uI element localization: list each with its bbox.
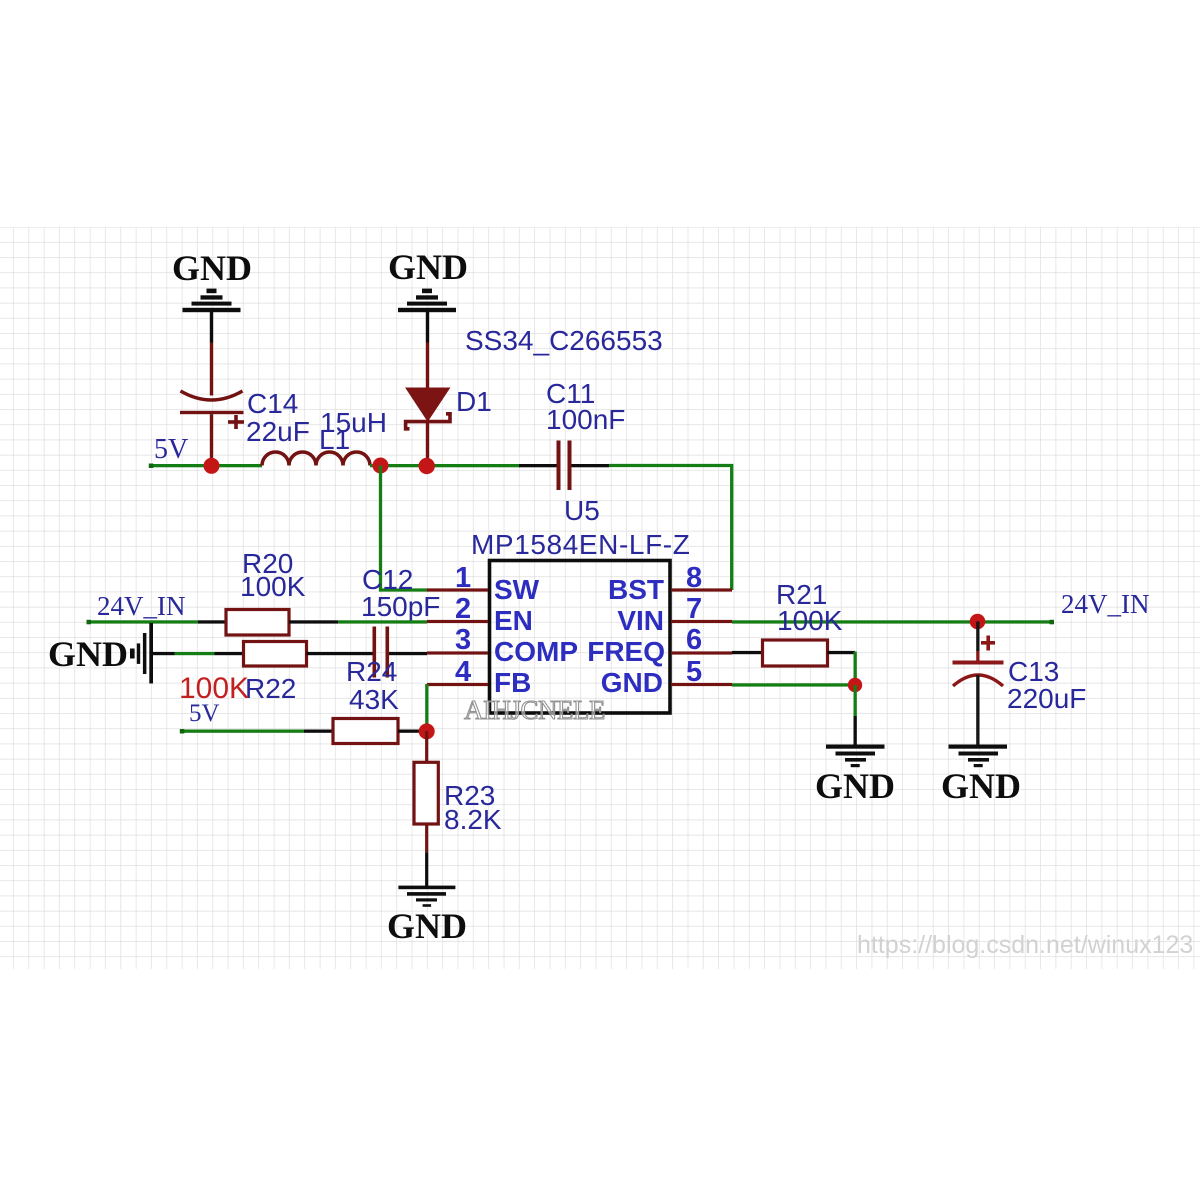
svg-text:24V_IN: 24V_IN <box>1061 589 1150 619</box>
svg-text:FB: FB <box>494 667 531 698</box>
pin 3 COMP <box>427 651 488 654</box>
svg-text:BST: BST <box>608 574 664 605</box>
svg-text:FREQ: FREQ <box>587 636 665 667</box>
resistor R23 <box>425 731 428 763</box>
node SW junction <box>373 458 389 474</box>
pin 5 GND <box>671 683 732 686</box>
svg-text:100nF: 100nF <box>546 404 625 435</box>
wire R24 to FB node <box>398 730 427 733</box>
wire pin5 to GND node <box>732 683 855 686</box>
wire GND to R22 <box>152 652 175 655</box>
node C14 junction <box>204 458 220 474</box>
node D1 junction <box>419 458 435 474</box>
svg-text:4: 4 <box>455 656 471 688</box>
pin 7 VIN <box>671 620 732 623</box>
svg-text:100K: 100K <box>777 605 843 636</box>
ground GND (below C13) <box>941 745 1021 807</box>
svg-text:22uF: 22uF <box>246 416 310 447</box>
inductor L1 <box>262 452 370 465</box>
svg-text:SW: SW <box>494 574 540 605</box>
capacitor C13 <box>953 622 1004 747</box>
ground GND (below R23) <box>387 886 467 946</box>
svg-text:GND: GND <box>172 248 252 288</box>
wire 5V to R24 <box>181 730 304 733</box>
pin 6 FREQ <box>671 651 732 654</box>
wire C12 to COMP <box>389 652 427 655</box>
IC U5 box <box>490 561 671 714</box>
wire FB down <box>425 684 428 732</box>
node C13 junction <box>970 614 986 630</box>
wire 24V_IN to R20 <box>88 620 198 623</box>
svg-text:U5: U5 <box>564 495 600 526</box>
resistor R20 <box>226 610 289 636</box>
svg-text:8.2K: 8.2K <box>444 804 502 835</box>
svg-text:3: 3 <box>455 624 471 656</box>
resistor R22 <box>244 642 307 667</box>
svg-text:GND: GND <box>48 634 128 674</box>
pin 8 BST <box>671 588 732 591</box>
resistor R24 <box>333 719 398 744</box>
svg-text:5V: 5V <box>154 434 188 465</box>
svg-text:SS34_C266553: SS34_C266553 <box>465 325 663 356</box>
svg-text:1: 1 <box>455 562 471 594</box>
pin 1 SW <box>427 588 488 591</box>
wire node down to ground <box>854 685 857 716</box>
wire R20 to EN <box>289 620 338 623</box>
wire (SW node down to pin1) <box>381 466 429 591</box>
pin 2 EN <box>427 620 488 623</box>
svg-text:GND: GND <box>815 766 895 806</box>
wire (dot to inductor) <box>150 464 262 467</box>
svg-text:GND: GND <box>601 667 663 698</box>
svg-text:https://blog.csdn.net/winux123: https://blog.csdn.net/winux123 <box>857 931 1193 959</box>
svg-text:150pF: 150pF <box>361 591 440 622</box>
node FB junction <box>419 723 435 739</box>
wire R22 to C12 <box>307 652 373 655</box>
svg-text:7: 7 <box>686 593 702 625</box>
svg-text:GND: GND <box>388 247 468 287</box>
svg-text:MP1584EN-LF-Z: MP1584EN-LF-Z <box>471 529 690 560</box>
ground GND (below R21) <box>815 745 895 807</box>
svg-text:5: 5 <box>686 656 702 688</box>
wire R21 down to GND node <box>854 652 857 686</box>
svg-text:C14: C14 <box>247 388 298 419</box>
svg-text:24V_IN: 24V_IN <box>97 591 186 621</box>
power port GND (left) <box>48 623 153 684</box>
ground GND (above C14) <box>172 248 252 343</box>
svg-text:5V: 5V <box>189 700 220 727</box>
svg-text:GND: GND <box>387 906 467 946</box>
svg-text:R24: R24 <box>346 656 397 687</box>
wire VIN to 24V_IN right <box>732 620 1052 623</box>
svg-text:220uF: 220uF <box>1007 683 1086 714</box>
ground GND (above D1) <box>388 247 468 343</box>
svg-text:L1: L1 <box>319 424 350 455</box>
svg-text:8: 8 <box>686 562 702 594</box>
resistor R21 <box>732 651 762 654</box>
svg-text:AIHJCNELE: AIHJCNELE <box>464 695 605 725</box>
svg-text:VIN: VIN <box>617 605 664 636</box>
svg-text:GND: GND <box>941 766 1021 806</box>
capacitor C12 plates <box>373 627 377 678</box>
grid background <box>0 227 1200 969</box>
svg-text:6: 6 <box>686 624 702 656</box>
wire (inductor to D1 node) <box>370 464 520 467</box>
capacitor C14 <box>180 343 244 466</box>
svg-text:43K: 43K <box>349 684 399 715</box>
svg-text:2: 2 <box>455 593 471 625</box>
svg-text:COMP: COMP <box>494 636 578 667</box>
svg-text:100K: 100K <box>240 571 306 602</box>
capacitor C11 <box>519 441 609 491</box>
wire end ticks <box>87 620 92 625</box>
node GND junction <box>848 678 862 692</box>
pin 4 FB <box>427 683 488 686</box>
wire (C11 to BST corner) <box>609 466 732 591</box>
svg-text:EN: EN <box>494 605 533 636</box>
svg-text:R22: R22 <box>245 673 296 704</box>
svg-text:D1: D1 <box>456 386 492 417</box>
diode D1 <box>406 343 450 467</box>
